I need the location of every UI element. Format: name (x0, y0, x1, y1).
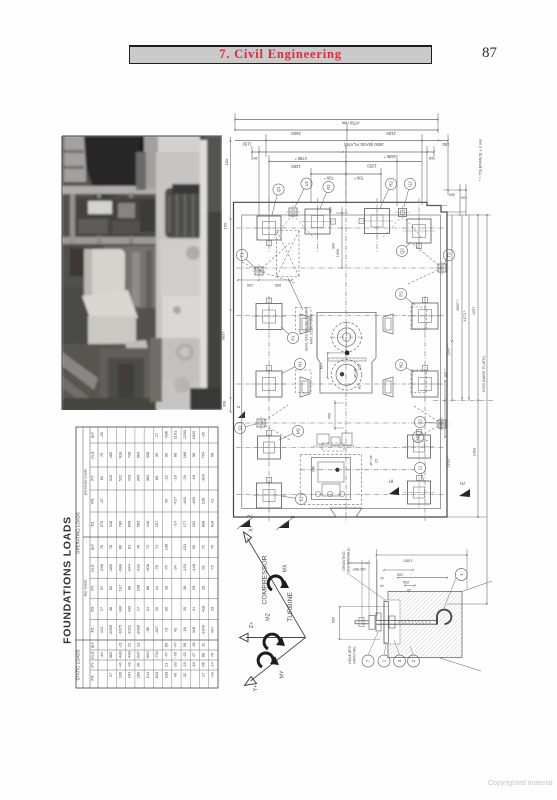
bolt detail part circles (362, 569, 467, 668)
svg-text:FY: FY (90, 662, 95, 668)
svg-text:73: 73 (163, 628, 168, 632)
svg-text:FX: FX (90, 606, 95, 612)
svg-text:700 *: 700 * (324, 176, 334, 181)
page number (482, 45, 497, 62)
svg-text:R2: R2 (389, 181, 394, 187)
anchor plate M2 (404, 430, 435, 463)
svg-text:47: 47 (191, 653, 196, 657)
svg-text:65: 65 (429, 156, 433, 161)
label circle M2 (412, 431, 428, 442)
compressor casing circle upper (330, 322, 363, 352)
label circle U1 (295, 178, 312, 207)
svg-text:100: 100 (397, 573, 403, 577)
anchor bolt detail drawing (384, 592, 462, 658)
svg-text:1000: 1000 (403, 559, 413, 564)
bolt detail dims 100 230 20 (347, 560, 448, 625)
svg-text:18: 18 (163, 586, 168, 590)
svg-text:76: 76 (136, 545, 141, 549)
svg-text:843: 843 (154, 672, 159, 679)
svg-text:136: 136 (163, 544, 168, 551)
svg-text:72: 72 (200, 545, 205, 549)
svg-text:382: 382 (108, 652, 113, 659)
svg-text:-78: -78 (154, 565, 159, 571)
svg-text:GROUTING: GROUTING (342, 551, 346, 571)
svg-text:-29: -29 (182, 475, 187, 481)
svg-text:-300: -300 (200, 473, 205, 482)
svg-text:3937 *: 3937 * (455, 299, 460, 311)
svg-text:563: 563 (136, 521, 141, 528)
svg-text:-465: -465 (182, 497, 187, 505)
foundation plan outer outline (234, 202, 448, 517)
svg-text:-10: -10 (191, 661, 196, 667)
svg-text:136: 136 (200, 498, 205, 505)
svg-text:FY: FY (90, 585, 95, 591)
label circle T2 (443, 249, 454, 264)
svg-text:14: 14 (154, 585, 159, 590)
svg-text:2600: 2600 (291, 131, 301, 136)
svg-text:-47: -47 (163, 652, 168, 658)
svg-text:160: 160 (136, 671, 141, 678)
left edge vertical dimension line (150/3037/368) (221, 137, 232, 413)
svg-text:HOLE Ø70: HOLE Ø70 (348, 646, 352, 664)
dashed brace lines near T1 (242, 243, 295, 283)
base plate inner outline (242, 215, 441, 509)
anchor bolt S2 (435, 417, 449, 431)
svg-text:* = TOLERANCE ± 3 mm: * = TOLERANCE ± 3 mm (479, 139, 483, 182)
svg-text:548: 548 (108, 521, 113, 528)
grouting note (342, 548, 385, 600)
svg-text:1937 *: 1937 * (446, 344, 451, 356)
svg-text:24: 24 (191, 606, 196, 611)
svg-text:135: 135 (358, 364, 362, 370)
svg-text:-47: -47 (173, 642, 178, 648)
rotation arrow MZ (264, 634, 285, 649)
anchor bolt T2 (435, 261, 449, 275)
svg-text:4237: 4237 (471, 307, 476, 316)
svg-text:-133: -133 (182, 564, 187, 572)
svg-text:418: 418 (200, 606, 205, 613)
anchor plate Q1 (253, 212, 285, 246)
svg-text:413: 413 (99, 627, 104, 634)
photo frame lines (62, 136, 222, 410)
dims 100 600 below T1 (237, 279, 293, 287)
svg-text:786: 786 (117, 521, 122, 528)
label circle N2 (395, 359, 414, 372)
svg-text:m.X: m.X (90, 564, 95, 572)
anchor plate N1 (252, 366, 286, 402)
svg-text:74: 74 (154, 544, 159, 549)
svg-text:480: 480 (108, 451, 113, 458)
svg-text:-389: -389 (108, 564, 113, 572)
svg-text:-43: -43 (210, 672, 215, 678)
svg-text:R1: R1 (326, 184, 331, 190)
label circle M1 (279, 425, 304, 440)
svg-text:-480: -480 (117, 650, 122, 659)
table data numbers (99, 430, 215, 678)
svg-text:437: 437 (210, 627, 215, 634)
svg-text:75: 75 (99, 453, 104, 457)
svg-text:TURBINE: TURBINE (287, 592, 294, 622)
svg-text:2150: 2150 (386, 131, 396, 136)
svg-text:450: 450 (327, 412, 332, 419)
svg-text:70: 70 (210, 544, 215, 549)
svg-text:81: 81 (358, 385, 362, 389)
svg-text:1685 *: 1685 * (384, 154, 396, 159)
svg-text:164: 164 (126, 671, 131, 678)
svg-text:13: 13 (136, 643, 141, 647)
svg-text:40: 40 (173, 672, 178, 677)
svg-text:300: 300 (332, 243, 336, 249)
svg-text:-78: -78 (173, 652, 178, 658)
svg-text:27: 27 (154, 433, 159, 437)
rotation arrow MY (258, 653, 279, 667)
svg-text:100: 100 (247, 283, 253, 287)
svg-text:27: 27 (99, 607, 104, 611)
svg-text:(UNSHRINKABLE): (UNSHRINKABLE) (347, 548, 351, 575)
svg-text:-20: -20 (173, 661, 178, 667)
svg-text:600: 600 (275, 283, 281, 287)
section mark E-E lower (459, 481, 470, 497)
top-right corner dims 300 / 100 (443, 184, 467, 216)
dimension 1150 and 3600 BASE PLATE and 150 (235, 134, 449, 205)
svg-text:270: 270 (99, 520, 104, 527)
svg-text:500: 500 (332, 617, 336, 623)
svg-text:-22: -22 (163, 475, 168, 481)
svg-text:168: 168 (182, 452, 187, 459)
svg-text:1785 *: 1785 * (295, 156, 307, 161)
svg-text:150: 150 (223, 222, 228, 229)
svg-text:44: 44 (380, 584, 384, 588)
svg-text:-18: -18 (191, 475, 196, 481)
svg-text:430: 430 (117, 605, 122, 612)
turbine inner blocks (300, 458, 415, 500)
svg-text:-688: -688 (117, 564, 122, 572)
label circle Q2 (396, 242, 411, 257)
svg-text:-1940: -1940 (200, 624, 205, 635)
svg-text:58: 58 (182, 643, 187, 647)
tolerance note (479, 139, 483, 182)
svg-text:20: 20 (407, 588, 411, 592)
anchor bolt T1 (252, 264, 266, 278)
label circle P2 (395, 288, 415, 305)
svg-text:mY: mY (90, 544, 95, 550)
svg-text:-146: -146 (191, 564, 196, 572)
svg-text:140: 140 (312, 466, 316, 472)
svg-text:m.X: m.X (90, 451, 95, 459)
svg-text:-16: -16 (173, 475, 178, 481)
anchor plate R2 (359, 205, 394, 238)
svg-text:608: 608 (200, 521, 205, 528)
svg-text:-37: -37 (99, 498, 104, 504)
dims 300 1000 left of compressor (329, 207, 349, 269)
svg-text:429: 429 (126, 475, 131, 482)
support pedestal dashed outlines (295, 307, 426, 393)
svg-text:307 *: 307 * (443, 368, 448, 378)
compressor corner supports (300, 314, 393, 397)
compressor casing circle lower (331, 360, 361, 390)
anchor column centerlines (269, 198, 425, 521)
svg-text:E: E (461, 481, 467, 485)
svg-text:3600 (BASE PLATE): 3600 (BASE PLATE) (344, 142, 384, 147)
svg-text:150 REF.: 150 REF. (352, 567, 366, 571)
svg-text:-21: -21 (117, 642, 122, 648)
svg-text:FOUNDATIONS LOADS: FOUNDATIONS LOADS (62, 516, 74, 644)
svg-text:S1: S1 (238, 425, 243, 431)
svg-text:-267: -267 (154, 626, 159, 634)
svg-text:-34: -34 (173, 564, 178, 570)
dimension 4750 min. (234, 113, 439, 133)
svg-text:T2: T2 (447, 252, 452, 258)
axes labels (262, 555, 295, 678)
svg-text:1150: 1150 (242, 141, 252, 146)
section mark 2-2 left (237, 514, 255, 529)
svg-text:MY: MY (280, 670, 286, 678)
svg-text:2: 2 (248, 514, 254, 517)
svg-text:-72: -72 (210, 565, 215, 571)
svg-text:-486: -486 (163, 431, 168, 439)
svg-text:L2: L2 (418, 465, 423, 470)
svg-text:563: 563 (136, 452, 141, 459)
svg-text:98: 98 (191, 453, 196, 457)
svg-text:live loads: live loads (83, 580, 88, 597)
svg-text:S2: S2 (418, 419, 423, 425)
anchor bolt shaft and hook (355, 610, 451, 625)
label circle U2 (404, 178, 416, 207)
svg-text:72: 72 (145, 545, 150, 549)
svg-text:pressure loads: pressure loads (83, 469, 88, 495)
svg-text:FY: FY (90, 475, 95, 481)
turbine gear cluster top (313, 433, 355, 451)
label circle P1 (281, 327, 299, 344)
svg-text:20: 20 (182, 606, 187, 611)
svg-text:152: 152 (191, 521, 196, 528)
svg-text:Z+: Z+ (249, 622, 255, 628)
svg-text:368: 368 (222, 400, 227, 407)
svg-text:58: 58 (210, 453, 215, 457)
svg-text:82: 82 (108, 586, 113, 590)
svg-text:76: 76 (108, 545, 113, 549)
svg-text:-22: -22 (182, 652, 187, 658)
foundations loads table (62, 427, 219, 688)
svg-text:607: 607 (319, 363, 324, 370)
dimension 2600 / 2150 (234, 124, 439, 141)
svg-text:43: 43 (173, 628, 178, 632)
svg-text:81: 81 (126, 545, 131, 549)
anchor bolt S1 (254, 416, 268, 430)
label circle L2 (414, 462, 425, 482)
svg-text:86: 86 (145, 586, 150, 590)
step lines top-right (427, 206, 466, 213)
svg-text:300: 300 (448, 193, 455, 198)
label circle S1 (234, 422, 256, 433)
svg-text:80: 80 (117, 544, 122, 549)
svg-text:-508: -508 (145, 564, 150, 572)
svg-text:27: 27 (136, 607, 141, 611)
svg-text:300: 300 (329, 207, 333, 213)
svg-text:144: 144 (145, 671, 150, 678)
svg-text:M1: M1 (296, 427, 301, 434)
label circle T1 (236, 249, 255, 268)
svg-text:28: 28 (182, 586, 187, 590)
gauge board dashed box with X (277, 231, 299, 277)
chapter header bar (129, 45, 432, 64)
label circle R2 (380, 178, 397, 208)
anchor plate P2 (408, 298, 442, 334)
dim 607 vertical (319, 352, 346, 379)
svg-text:4750 min.: 4750 min. (341, 120, 360, 125)
svg-text:36: 36 (108, 607, 113, 611)
svg-text:MX: MX (283, 564, 289, 572)
svg-text:65: 65 (253, 156, 257, 161)
svg-text:2: 2 (291, 515, 297, 518)
svg-text:-1675: -1675 (117, 625, 122, 635)
svg-text:U1: U1 (304, 180, 309, 186)
dimension 700 / 700 (310, 146, 382, 202)
svg-text:-35: -35 (99, 432, 104, 438)
hole grouting note (348, 646, 357, 664)
svg-text:11: 11 (200, 643, 205, 647)
section mark 2 at plan left edge (236, 405, 245, 418)
svg-text:-465: -465 (191, 497, 196, 505)
svg-text:32: 32 (182, 673, 187, 677)
label circle S2 (414, 416, 437, 427)
svg-text:M2: M2 (416, 433, 421, 440)
svg-text:137: 137 (117, 585, 122, 592)
svg-text:17: 17 (200, 673, 205, 677)
dashed brace lines near S2 (412, 406, 442, 440)
svg-text:23: 23 (210, 607, 215, 611)
anchor plate L1 (253, 478, 286, 513)
svg-text:-70: -70 (163, 564, 168, 570)
svg-text:30: 30 (163, 606, 168, 611)
svg-text:Y+: Y+ (253, 685, 259, 692)
svg-text:-40: -40 (117, 661, 122, 667)
dimension 1250 / 1250 (268, 155, 422, 210)
svg-text:2163 *: 2163 * (446, 456, 451, 468)
svg-text:2: 2 (236, 405, 242, 408)
svg-text:1043 *: 1043 * (438, 418, 443, 430)
svg-text:257: 257 (154, 521, 159, 528)
svg-text:1: 1 (382, 659, 387, 662)
svg-text:-427: -427 (173, 497, 178, 505)
svg-text:345: 345 (108, 475, 113, 482)
svg-text:88: 88 (173, 453, 178, 457)
anchor bolt U2 (396, 206, 410, 220)
right dims texts (438, 299, 486, 468)
svg-text:2: 2 (411, 659, 416, 662)
svg-text:30: 30 (191, 544, 196, 549)
svg-text:E: E (389, 479, 395, 483)
anchor row centerlines (236, 228, 445, 495)
svg-text:MZ: MZ (266, 612, 272, 620)
anchor plate N2 (408, 366, 442, 402)
dim 140 and 15 turbine (312, 455, 379, 472)
coupling guard hatched bar (328, 358, 366, 361)
thrust block at bottom (330, 508, 362, 517)
svg-text:FZ: FZ (90, 521, 95, 527)
bolt detail dim 1000 (376, 549, 468, 620)
svg-text:7: 7 (366, 659, 371, 662)
svg-text:2463: 2463 (472, 448, 477, 457)
rotation arrow MX (268, 576, 289, 590)
svg-text:N1: N1 (298, 361, 303, 367)
svg-text:-14: -14 (173, 520, 178, 526)
label circle L1 (281, 493, 307, 504)
svg-text:-944: -944 (126, 563, 131, 572)
dashed funnel below U1 (273, 218, 314, 238)
section mark 2-2 right (276, 515, 297, 530)
svg-text:100: 100 (117, 671, 122, 678)
dashed brace lines near T2 (408, 243, 442, 284)
svg-text:-14: -14 (210, 661, 215, 667)
svg-text:82: 82 (99, 476, 104, 480)
compressor body outline (317, 313, 376, 394)
svg-text:1250: 1250 (367, 164, 377, 169)
svg-text:-64: -64 (99, 651, 104, 657)
svg-text:37: 37 (99, 586, 104, 590)
svg-text:738: 738 (126, 452, 131, 459)
filled node point (345, 351, 350, 356)
svg-text:L1: L1 (299, 496, 304, 501)
svg-text:-637: -637 (136, 651, 141, 659)
svg-text:1000: 1000 (336, 249, 340, 257)
svg-text:mY: mY (90, 642, 95, 648)
svg-text:-19: -19 (182, 662, 187, 668)
svg-text:U2: U2 (408, 181, 413, 187)
anchor plate R1 (301, 205, 336, 238)
svg-text:360: 360 (145, 474, 150, 481)
svg-text:-56: -56 (200, 662, 205, 668)
bolt detail dim 500 (332, 606, 389, 640)
svg-text:N2: N2 (399, 362, 404, 368)
svg-text:29: 29 (191, 586, 196, 590)
copyright note (488, 780, 557, 787)
svg-text:20: 20 (154, 606, 159, 611)
svg-text:-1022: -1022 (126, 625, 131, 635)
svg-text:-52: -52 (191, 642, 196, 648)
svg-text:FZ: FZ (90, 627, 95, 633)
svg-text:608: 608 (126, 521, 131, 528)
dim 135 and 81 (354, 364, 361, 389)
svg-text:230: 230 (403, 580, 409, 584)
svg-text:700 *: 700 * (354, 176, 364, 181)
svg-text:416: 416 (145, 521, 150, 528)
svg-text:395: 395 (136, 475, 141, 482)
svg-text:Q2: Q2 (400, 248, 405, 254)
svg-text:24: 24 (145, 606, 150, 611)
svg-text:-2293: -2293 (182, 430, 187, 440)
svg-text:88: 88 (126, 586, 131, 590)
svg-text:618: 618 (210, 521, 215, 528)
svg-text:108: 108 (136, 585, 141, 592)
svg-text:4172 *: 4172 * (462, 310, 467, 322)
svg-text:41: 41 (210, 499, 215, 503)
svg-text:-2009: -2009 (108, 625, 113, 635)
label circle N1 (281, 358, 306, 374)
svg-text:70: 70 (210, 652, 215, 657)
svg-text:3037: 3037 (221, 331, 226, 341)
svg-text:6700 (BASE PLATE): 6700 (BASE PLATE) (481, 355, 486, 392)
label circle R1 (320, 181, 334, 209)
svg-text:26: 26 (136, 663, 141, 667)
svg-text:-35: -35 (200, 432, 205, 438)
svg-text:1191: 1191 (173, 431, 178, 439)
svg-text:17: 17 (108, 673, 113, 677)
svg-text:12: 12 (126, 643, 131, 647)
svg-text:FX: FX (90, 675, 95, 681)
svg-text:-483: -483 (126, 651, 131, 659)
dashed brace lines near S1 (261, 405, 290, 440)
